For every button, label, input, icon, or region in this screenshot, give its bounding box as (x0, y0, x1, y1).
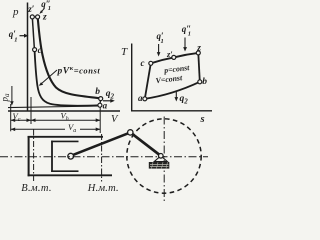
Vc dimension (11, 118, 31, 122)
TDC line (33, 130, 35, 182)
cylinder top wall (28, 136, 103, 138)
Ts arrow q2 (175, 91, 179, 102)
svg-text:z′: z′ (27, 4, 35, 14)
crank arm (130, 132, 161, 156)
arrow q1' to isochore (20, 34, 29, 38)
cylinder head (left wall) (28, 136, 30, 176)
Vh dimension (31, 118, 100, 122)
T axis (131, 44, 133, 112)
Ts isochore b-a (145, 82, 200, 99)
svg-text:c: c (141, 58, 145, 68)
vertical centerline (163, 117, 165, 203)
piston face (51, 141, 53, 172)
piston bottom (51, 170, 78, 172)
s axis (131, 110, 212, 112)
Ts point b (198, 80, 202, 84)
svg-text:c: c (38, 45, 42, 55)
BDC line (101, 134, 103, 182)
svg-text:z: z (42, 13, 47, 23)
crank pivot (159, 154, 164, 159)
Ts point c (149, 61, 153, 65)
point a (98, 103, 102, 107)
point b (99, 97, 103, 101)
svg-text:b: b (95, 87, 100, 97)
Ts point z (196, 51, 200, 55)
horizontal centerline (0, 156, 208, 158)
connecting rod (72, 133, 130, 156)
svg-text:a: a (103, 101, 108, 111)
arrow q1'' to z (39, 9, 44, 14)
isochore b-a (99, 99, 102, 106)
point z (36, 15, 40, 19)
svg-text:a: a (138, 93, 143, 103)
p axis (27, 3, 29, 112)
point z' (30, 15, 34, 19)
Ts point a (143, 97, 147, 101)
expansion adiabat z-b (38, 19, 100, 99)
piston top (51, 140, 78, 142)
compression adiabat a-c (35, 51, 100, 106)
Ts point z' (172, 55, 176, 59)
isochore c-z' (32, 17, 34, 49)
svg-text:z′: z′ (166, 49, 173, 59)
extension line Vc (30, 97, 32, 124)
cylinder bottom wall (28, 174, 112, 176)
svg-text:T: T (121, 46, 128, 58)
Ts isobar z'-z (174, 53, 199, 58)
Ts isochore c-z' (151, 57, 174, 63)
svg-text:s: s (200, 114, 205, 125)
crank circle (dashed) (127, 119, 201, 193)
svg-text:В.м.т.: В.м.т. (21, 183, 52, 194)
Ts adiabat a-c (145, 63, 151, 99)
svg-text:p: p (12, 6, 19, 18)
Ts adiabat z-b (198, 53, 200, 82)
svg-text:b: b (202, 77, 207, 87)
svg-text:Н.м.т.: Н.м.т. (87, 183, 119, 194)
p_a down arrow (10, 86, 14, 106)
pivot support hatched block (149, 162, 170, 169)
arrow pV^k to adiabat (39, 70, 57, 86)
isobar z'-z (32, 16, 37, 18)
svg-text:z: z (196, 43, 201, 53)
crank pin (128, 130, 133, 135)
Ts arrow q1'' (183, 38, 187, 52)
paper background (0, 0, 216, 205)
svg-text:pVκ=const: pVκ=const (57, 65, 101, 77)
extension line V=0 (10, 104, 12, 131)
wrist pin (68, 153, 74, 159)
V axis (8, 110, 120, 112)
extension line Va (99, 108, 101, 134)
point c (33, 48, 37, 52)
p_a level line (8, 106, 101, 108)
pivot support triangle (154, 156, 167, 162)
Va dimension (11, 128, 101, 132)
Ts arrow q1' (157, 44, 161, 57)
arrow q2 right (pV) (103, 99, 115, 103)
